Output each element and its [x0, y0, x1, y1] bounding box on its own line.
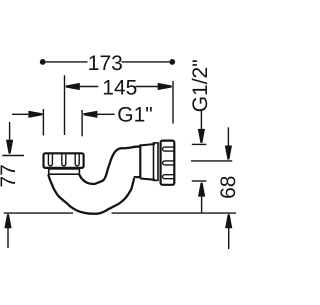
- dim 77 tick: [2, 155, 24, 157]
- G1 outside arrowhead pointing right: [28, 111, 42, 118]
- dim 145 extension bar left: [64, 75, 66, 135]
- outlet nut slot 1: [163, 147, 175, 151]
- inlet nut slot 1: [48, 154, 52, 166]
- G1/2 tick bottom: [192, 180, 207, 182]
- trap neck curve: [79, 146, 140, 184]
- dim 173 dot right: [169, 59, 175, 65]
- G1 dim extension bar left: [42, 109, 44, 136]
- inlet nut slot 2: [62, 154, 66, 166]
- inlet nut slot 3: [75, 154, 79, 166]
- svg-text:G1/2": G1/2": [189, 59, 212, 112]
- G1/2 lower arrowhead up: [198, 183, 205, 197]
- outlet nut slot 2: [163, 161, 175, 165]
- G1/2 arrowhead down: [198, 129, 205, 143]
- G1/2 leader shaft: [200, 110, 202, 131]
- outlet cone left edge: [139, 144, 141, 178]
- trap outer contour: [48, 175, 134, 214]
- dim 145 line left: [66, 86, 99, 88]
- outlet nut slot 3: [163, 175, 175, 179]
- dim 145 extension bar right: [172, 81, 174, 124]
- svg-text:68: 68: [217, 176, 236, 199]
- dim 145 arrowhead left: [66, 83, 80, 90]
- dim 173 dot left: [40, 59, 46, 65]
- outlet cone bottom edge: [140, 179, 155, 180]
- dim 77 arrowhead down: [6, 140, 13, 154]
- bottom reference line right: [112, 212, 237, 214]
- dim 68 arrowhead up: [225, 214, 232, 228]
- dim 77 top arrow shaft: [9, 122, 11, 141]
- outlet nut body: [161, 141, 175, 185]
- svg-text:145: 145: [102, 77, 137, 100]
- dim 68 top arrow shaft: [227, 127, 229, 147]
- inlet collar: [49, 169, 80, 174]
- svg-text:173: 173: [88, 52, 123, 75]
- dim 77 arrowhead up: [4, 214, 11, 228]
- G1 dim extension bar right: [81, 110, 83, 136]
- bottom reference line left: [4, 212, 73, 214]
- G1/2 tick top: [192, 143, 207, 145]
- svg-text:77: 77: [0, 164, 20, 187]
- G1 label arrowhead pointing left: [83, 111, 97, 118]
- outlet collar band: [154, 143, 159, 181]
- dim 145 line right: [135, 86, 171, 88]
- G1/2 lower shaft: [201, 196, 203, 214]
- G1 label leader line: [95, 113, 114, 115]
- trap ledge under cone: [134, 176, 141, 178]
- dim 68 top reference line: [191, 160, 232, 162]
- dim 145 arrowhead right: [158, 83, 172, 90]
- inlet nut body: [44, 153, 84, 168]
- dim 68 arrowhead down: [225, 146, 232, 160]
- dim 173 line left: [46, 61, 88, 63]
- dim 173 line right: [122, 61, 170, 63]
- dim 77 bottom arrow shaft: [7, 227, 9, 248]
- dim 68 bottom arrow shaft: [228, 227, 230, 249]
- svg-text:G1": G1": [117, 104, 152, 127]
- outlet cone top edge: [140, 144, 155, 146]
- G1 left outside arrow line: [12, 113, 30, 115]
